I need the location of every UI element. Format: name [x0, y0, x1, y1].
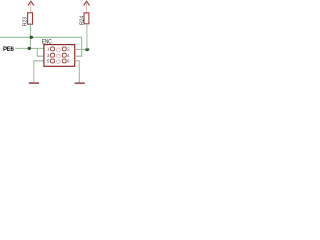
wire line1 descender to pin4	[75, 37, 82, 56]
junction on line1	[30, 36, 33, 39]
svg-text:4: 4	[67, 53, 70, 58]
pin 6	[62, 59, 66, 63]
supply arrow VCC2	[84, 1, 90, 13]
resistor R23	[28, 13, 33, 24]
pad ghost row3	[57, 60, 61, 64]
svg-text:2: 2	[67, 47, 70, 52]
pad ghost row2	[57, 54, 61, 58]
wire R23 down	[29, 24, 31, 48]
svg-text:R24: R24	[80, 16, 86, 25]
junction R24 on pin2 net	[85, 48, 89, 52]
wire pin6 to ground	[75, 61, 80, 82]
wire pin5 to ground	[34, 61, 44, 67]
ground GND1	[29, 67, 39, 84]
supply arrow VCC1	[28, 1, 34, 13]
wire pin2 stub	[75, 48, 90, 50]
wire net line1	[0, 36, 82, 38]
svg-text:PE6: PE6	[3, 46, 15, 53]
pin 4	[62, 53, 66, 57]
svg-text:5: 5	[47, 59, 50, 64]
resistor R24	[84, 13, 89, 24]
svg-text:ENC: ENC	[42, 39, 52, 46]
svg-text:3: 3	[47, 53, 50, 58]
wire net PE6 horizontal	[15, 47, 44, 49]
wire branch to pin3	[37, 48, 44, 56]
pin 2	[62, 47, 66, 51]
svg-text:1: 1	[47, 47, 50, 52]
junction on PE6	[28, 47, 31, 50]
pad ghost row1	[57, 48, 61, 52]
svg-text:R23: R23	[22, 17, 28, 26]
ground GND2	[75, 82, 85, 84]
svg-text:6: 6	[67, 59, 70, 64]
connector ENC box	[44, 45, 75, 67]
wire R24 down	[86, 24, 88, 50]
